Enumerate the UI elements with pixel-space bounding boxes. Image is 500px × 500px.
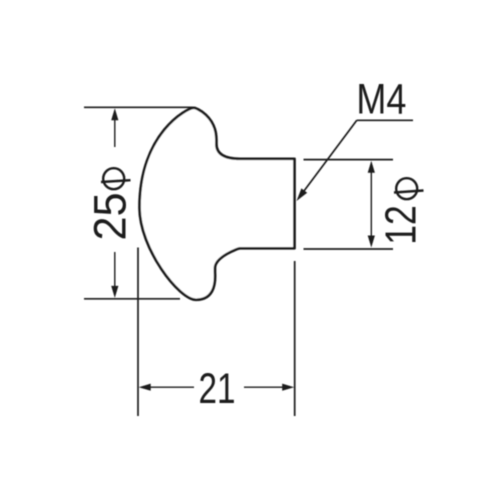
dim 25phi line top segment — [114, 112, 116, 147]
dim 21 right extension line — [294, 261, 296, 416]
dim 25phi bottom extension line — [84, 298, 180, 300]
dim 12phi arrow down — [368, 236, 375, 248]
dim 12phi bottom extension line — [304, 248, 394, 250]
dim 25phi phi symbol — [101, 168, 131, 189]
dim 21 line left segment — [144, 386, 194, 388]
svg-text:21: 21 — [199, 365, 236, 413]
dim 25phi top extension line — [84, 106, 193, 108]
leader arrowhead — [297, 188, 308, 201]
dim 21 line right segment — [244, 386, 289, 388]
dim 12phi phi symbol — [394, 178, 424, 199]
leader horizontal segment — [357, 119, 413, 121]
dim 21 arrow left — [139, 384, 151, 391]
knob outline — [140, 108, 295, 300]
dim 21 left extension line — [137, 248, 139, 417]
leader angled segment — [302, 120, 357, 193]
dim 12phi top extension line — [304, 159, 394, 161]
dim 12phi arrow up — [368, 161, 375, 173]
dim 12phi dimension line — [370, 166, 372, 242]
dim 25phi arrow up — [111, 108, 118, 120]
svg-text:25: 25 — [85, 193, 136, 241]
svg-text:M4: M4 — [356, 76, 406, 124]
svg-text:12: 12 — [377, 205, 426, 245]
dim 21 arrow right — [282, 384, 294, 391]
dim 25phi arrow down — [111, 286, 118, 298]
dim 25phi line bottom segment — [114, 252, 116, 294]
